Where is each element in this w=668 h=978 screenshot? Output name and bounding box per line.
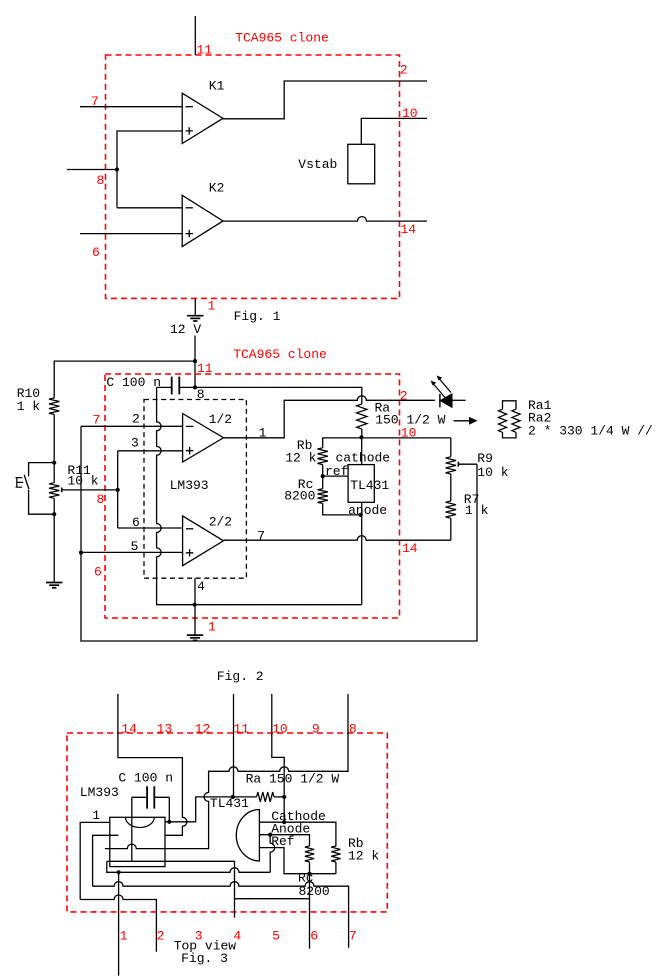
resistor Rb (Fig.3) — [331, 846, 340, 862]
wire Ra right lead (Fig.3) — [274, 796, 284, 798]
svg-text:TCA965 clone: TCA965 clone — [233, 347, 327, 362]
resistor Rc (Fig.2) — [318, 489, 328, 504]
wire pin 4 to ground (Fig.2) — [194, 578, 196, 635]
svg-text:12 k: 12 k — [348, 849, 379, 864]
wire Ra1/Ra2 brackets — [503, 401, 517, 438]
svg-text:10: 10 — [272, 722, 288, 737]
wire output 2 to pin 14/R7 with hop — [224, 536, 451, 541]
svg-text:6: 6 — [132, 515, 140, 530]
wire cap right leg — [168, 797, 170, 822]
wire decoupling ground leg with hops — [157, 387, 362, 604]
LED indicator — [439, 394, 441, 408]
junction Ra/pin10 (Fig.3) — [282, 795, 286, 799]
svg-text:2: 2 — [400, 388, 408, 403]
op-amp K1 — [182, 93, 223, 143]
wire cap left leg to row4 — [131, 797, 133, 861]
junction supply/R10 (Fig.2) — [193, 359, 197, 363]
svg-text:K2: K2 — [209, 181, 225, 196]
svg-text:12: 12 — [195, 722, 211, 737]
wire 12V supply into pin 11 (Fig.2) — [194, 336, 196, 388]
potentiometer R9 — [446, 457, 456, 474]
wire pin 7 input — [80, 106, 182, 108]
junction anode branch (Fig.3) — [268, 833, 272, 837]
wire R11 top lead — [53, 463, 55, 483]
svg-text:10: 10 — [402, 106, 418, 121]
junction ref bus/Rc (Fig.3) — [307, 872, 311, 876]
bus B to pin 7 (Fig.3) — [93, 882, 349, 948]
pushbutton T blade — [24, 475, 29, 489]
IC boundary socket (Fig.3) — [67, 733, 387, 912]
capacitor C 100n (Fig.3) — [147, 786, 154, 808]
wire pin 5 input (2/2 +) — [81, 551, 183, 553]
resistor R7 — [446, 501, 456, 518]
junction pin 8 V+ (Fig.2) — [193, 385, 197, 389]
op-amp 2/2 LM393 — [183, 516, 224, 566]
junction R10/R11/button top — [52, 461, 56, 465]
wire pin10 to cathode (Fig.3) — [283, 797, 285, 822]
junction ground rail pin4 — [193, 603, 197, 607]
resistor Ra1 (parallel pair left) — [498, 409, 506, 432]
pushbutton T bracket bottom — [29, 490, 55, 514]
transistor package TL431 (Fig.3) — [236, 810, 259, 862]
junction ref node (Fig.2) — [321, 474, 325, 478]
svg-text:2/2: 2/2 — [209, 514, 232, 529]
regulator Vstab box — [348, 144, 375, 184]
svg-text:LM393: LM393 — [80, 785, 119, 800]
wire IC pin2 row stub (Fig.3) — [93, 835, 119, 886]
svg-text:6: 6 — [310, 929, 318, 944]
capacitor C 100n (Fig.2) — [172, 377, 180, 395]
svg-text:6: 6 — [92, 245, 100, 260]
junction IC pin8 node (Fig.3) — [167, 820, 171, 824]
svg-text:K1: K1 — [209, 79, 225, 94]
svg-text:Ra 150 1/2 W: Ra 150 1/2 W — [246, 771, 340, 786]
svg-text:1: 1 — [208, 299, 216, 314]
wire cathode lead to Rb — [259, 822, 336, 846]
pushbutton T bracket top — [29, 463, 55, 477]
wire ref lead (Fig.3) — [259, 848, 336, 874]
svg-text:Fig. 1: Fig. 1 — [234, 309, 281, 324]
wire Vstab to pin 10 — [361, 118, 427, 144]
R11 wiper arm — [61, 488, 63, 493]
svg-text:13: 13 — [157, 722, 173, 737]
wire pin10 to R9 — [450, 438, 452, 457]
IC boundary LM393 (Fig.2) — [144, 400, 246, 579]
svg-text:8: 8 — [197, 387, 205, 402]
wire pin 6 input — [80, 233, 182, 235]
wire R11 chain to ground — [53, 514, 55, 582]
svg-text:12 k: 12 k — [285, 451, 316, 466]
svg-text:1: 1 — [259, 425, 267, 440]
ground (Fig.2 pin1) — [187, 634, 203, 636]
wire Rb bottom lead — [335, 862, 337, 874]
wire pin8 to K1+ and K2- — [117, 131, 182, 208]
wire Ra to cathode node — [361, 429, 363, 437]
svg-text:8: 8 — [97, 173, 105, 188]
pushbutton T actuator — [16, 478, 24, 488]
wire IC pin1 row (Fig.3) — [80, 822, 110, 899]
wire pin 11 drop (Fig.3) — [233, 694, 235, 797]
svg-text:TCA965 clone: TCA965 clone — [235, 31, 329, 46]
wire R9 to R7 — [450, 474, 452, 501]
svg-text:1: 1 — [208, 620, 216, 635]
wire Rc leads — [323, 476, 361, 515]
svg-text:TL431: TL431 — [210, 796, 249, 811]
svg-text:2: 2 — [132, 412, 140, 427]
wire R10 to R11 — [53, 414, 55, 462]
wire Rb to ref — [322, 465, 324, 477]
bus C to pin 2 (Fig.3) — [80, 895, 156, 952]
wire pin 3 input (1/2 +) — [118, 450, 183, 452]
wire pin 6 input (2/2 -) — [118, 527, 183, 529]
wire row4 under IC (Fig.3) — [107, 861, 234, 898]
svg-text:4: 4 — [197, 579, 205, 594]
svg-text:10 k: 10 k — [67, 474, 98, 489]
svg-text:C 100 n: C 100 n — [118, 771, 173, 786]
IC package LM393 (Fig.3) — [110, 817, 165, 866]
svg-text:7: 7 — [257, 529, 265, 544]
wire pin 8 route (Fig.3) — [105, 694, 348, 849]
svg-text:TL431: TL431 — [350, 478, 389, 493]
svg-text:8: 8 — [97, 492, 105, 507]
junction pin8 node (Fig.1) — [115, 167, 119, 171]
svg-text:5: 5 — [131, 539, 139, 554]
IC boundary TCA965 clone (Fig.1) — [106, 55, 400, 298]
wire R7 to output2 rail — [450, 518, 452, 540]
resistor Rc (Fig.3) — [305, 846, 314, 862]
svg-text:10: 10 — [401, 426, 417, 441]
resistor R10 — [49, 398, 59, 414]
svg-text:6: 6 — [94, 565, 102, 580]
wire V+ rail to Ra — [195, 387, 362, 404]
potentiometer R11 — [49, 483, 59, 499]
junction wiper to pins 3/6 — [116, 488, 120, 492]
wire K2 output to pin 14 with hop — [223, 217, 427, 222]
wire pin 8 input — [67, 169, 117, 171]
svg-text:2: 2 — [157, 929, 165, 944]
ground (Fig.1 pin1) — [187, 315, 203, 317]
resistor Ra2 (parallel pair right) — [512, 409, 520, 432]
wire output 1 to pin 2/LED with hop — [224, 396, 435, 438]
svg-text:5: 5 — [272, 929, 280, 944]
svg-text:8200: 8200 — [284, 489, 315, 504]
wire TL431 cathode — [361, 437, 363, 464]
wire pin 10 net — [323, 438, 451, 448]
op-amp K2 — [182, 195, 223, 246]
resistor Rb (Fig.2) — [318, 448, 328, 465]
svg-text:11: 11 — [197, 361, 213, 376]
IC boundary TCA965 clone (Fig.2) — [105, 374, 400, 618]
svg-text:7: 7 — [93, 413, 101, 428]
svg-text:12 V: 12 V — [170, 322, 201, 337]
wire anode lead (Fig.3) — [259, 835, 309, 846]
LED light arrow 1 — [434, 384, 446, 398]
wire reference loop bottom — [81, 464, 477, 641]
junction reference/pin5 — [79, 551, 83, 555]
wire ref to TL431 — [323, 475, 348, 477]
wire Rc bottom lead — [309, 862, 311, 874]
resistor Ra (Fig.2) — [357, 404, 367, 429]
svg-text:7: 7 — [349, 929, 357, 944]
junction cathode node (Fig.3) — [282, 820, 286, 824]
svg-text:14: 14 — [401, 222, 417, 237]
wire pin 2 input (1/2 -) — [81, 425, 183, 427]
op-amp 1/2 LM393 — [183, 414, 224, 463]
svg-text:1 k: 1 k — [17, 399, 41, 414]
wire pin 14 route (Fig.3) — [118, 694, 187, 835]
svg-text:1: 1 — [120, 929, 128, 944]
R9 wiper arm — [457, 462, 459, 467]
junction anode/Rc — [359, 513, 363, 517]
svg-text:14: 14 — [121, 722, 137, 737]
wire TL431 anode to ground rail — [361, 502, 363, 604]
svg-text:ref: ref — [325, 464, 348, 479]
svg-text:2: 2 — [400, 63, 408, 78]
wire K1 output to pin 2 — [223, 81, 427, 119]
svg-text:3: 3 — [131, 436, 139, 451]
svg-text:7: 7 — [91, 94, 99, 109]
svg-text:1: 1 — [92, 808, 100, 823]
svg-text:9: 9 — [312, 722, 320, 737]
wire pin 10 route (Fig.3) — [272, 694, 284, 797]
svg-text:R9: R9 — [477, 451, 493, 466]
svg-text:LM393: LM393 — [170, 478, 209, 493]
ground (Fig.2 divider) — [46, 582, 62, 584]
svg-text:Fig. 3: Fig. 3 — [181, 951, 228, 966]
svg-text:Vstab: Vstab — [298, 157, 337, 172]
junction pin 11/Ra (Fig.3) — [231, 795, 235, 799]
wire pins 3-6 tie — [117, 451, 119, 528]
bus A anode rail (Fig.3) — [107, 861, 270, 872]
svg-text:anode: anode — [348, 503, 387, 518]
regulator TL431 box (Fig.2) — [348, 465, 374, 503]
svg-text:2 * 330 1/4 W //: 2 * 330 1/4 W // — [528, 424, 653, 439]
svg-text:11: 11 — [233, 722, 249, 737]
wire supply rail to R10 — [54, 361, 195, 398]
wire pin 1 drop (Fig.3) — [118, 872, 120, 975]
wire reference rail pins 2/5 — [80, 426, 82, 552]
junction bus A/pin1 (Fig.3) — [117, 870, 121, 874]
svg-text:Fig. 2: Fig. 2 — [217, 669, 264, 684]
equivalence arrow — [454, 420, 471, 422]
wire anode down to bus A with hop — [270, 835, 275, 873]
wire pin 11 supply (Fig.1) — [194, 16, 196, 55]
junction R11 bottom/button — [52, 512, 56, 516]
svg-text:14: 14 — [402, 541, 418, 556]
wire pin4 stub (Fig.3) — [234, 899, 236, 918]
wire Ra left lead (Fig.3) — [233, 796, 257, 798]
LED light arrow 2 — [440, 379, 452, 393]
svg-text:8: 8 — [349, 722, 357, 737]
svg-text:1/2: 1/2 — [209, 412, 232, 427]
junction pin 10 node — [359, 435, 363, 439]
svg-text:cathode: cathode — [336, 451, 391, 466]
resistor Ra (Fig.3) — [257, 792, 274, 802]
wire ref segment to pin 6 (Fig.3) — [235, 874, 310, 949]
wire pin 1 to ground (Fig.1) — [194, 298, 196, 315]
wire IC pin8 stub to Ra rail — [165, 797, 233, 822]
svg-text:10 k: 10 k — [477, 465, 508, 480]
svg-text:1 k: 1 k — [465, 503, 489, 518]
wire R11 bottom lead — [53, 498, 55, 514]
svg-text:C 100 n: C 100 n — [106, 375, 161, 390]
